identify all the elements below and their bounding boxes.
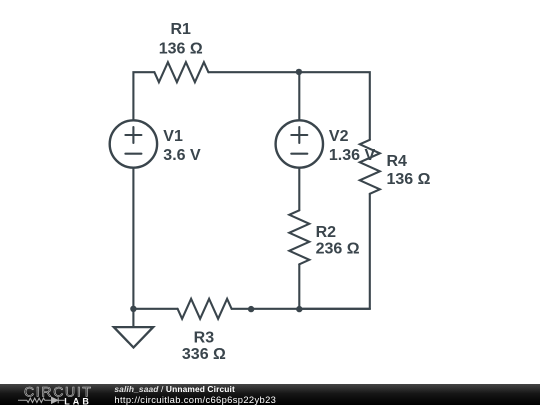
node junction dot bottom-middle (296, 306, 302, 312)
svg-text:136 Ω: 136 Ω (387, 171, 431, 188)
ground symbol (114, 327, 153, 347)
svg-text:R4: R4 (387, 153, 408, 170)
ground stub wire (132, 309, 134, 327)
svg-text:3.6 V: 3.6 V (163, 147, 201, 164)
wire middle-top segment (298, 72, 300, 120)
svg-text:V2: V2 (329, 128, 349, 145)
wire R2 to bottom node (298, 264, 300, 309)
wire V2 to R2 (298, 168, 300, 211)
logo schematic squiggle with diode (18, 397, 65, 403)
node junction dot top (296, 69, 302, 75)
svg-text:LAB: LAB (64, 396, 92, 405)
svg-text:R1: R1 (170, 21, 191, 38)
voltage source V1 (110, 120, 157, 167)
node junction dot bottom-left (130, 306, 136, 312)
svg-text:V1: V1 (163, 128, 183, 145)
wire V1 to bottom-left node (132, 168, 134, 309)
voltage source V2 (276, 120, 323, 167)
svg-text:336 Ω: 336 Ω (182, 346, 226, 363)
svg-text:salih_saad / Unnamed Circuit: salih_saad / Unnamed Circuit (114, 384, 235, 394)
resistor R3 (178, 299, 232, 319)
svg-text:136 Ω: 136 Ω (159, 41, 203, 58)
resistor R1 (154, 62, 208, 82)
resistor R2 (289, 210, 309, 264)
svg-text:R2: R2 (316, 224, 337, 241)
wire top-right segment (208, 72, 369, 140)
svg-text:1.36 V: 1.36 V (329, 147, 376, 164)
svg-text:236 Ω: 236 Ω (316, 241, 360, 258)
wire top-left segment (133, 72, 154, 120)
wire bottom-left to R3 (133, 308, 177, 310)
footer bar (0, 384, 540, 405)
svg-text:http://circuitlab.com/c66p6sp2: http://circuitlab.com/c66p6sp22yb23 (114, 394, 276, 405)
svg-text:R3: R3 (194, 330, 215, 347)
node junction dot bottom-middle-left (248, 306, 254, 312)
wire R3 to bottom-right (232, 308, 370, 310)
resistor R4 (360, 140, 380, 194)
wire right-lower segment (299, 194, 370, 309)
